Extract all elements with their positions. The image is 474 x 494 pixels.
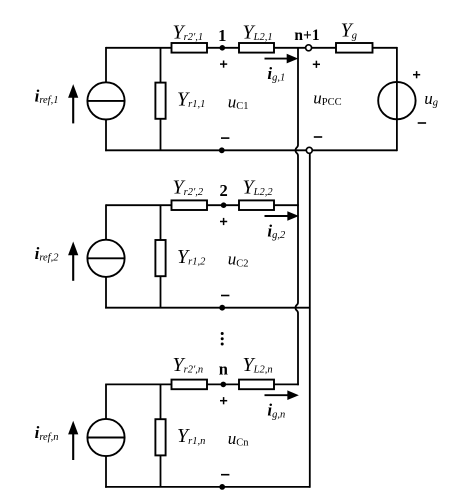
wire: from top rail down to Y_r1,2 [160, 205, 162, 240]
label: Y_r2',n [173, 354, 204, 376]
wire: from Y_r1,2 down to bottom rail [160, 276, 162, 308]
label: Y_L2,1 [243, 21, 273, 43]
resistor Y_r2',n (series admittance) [172, 380, 208, 390]
label: node number 1 [218, 26, 226, 45]
resistor Y_r1,2 (shunt admittance) [155, 240, 165, 276]
current source i_ref,n [87, 419, 124, 456]
node: PCC bottom terminal (open circle) [306, 147, 312, 153]
label: + of u_g [413, 71, 420, 78]
label: i_ref,n [35, 423, 59, 443]
label: Y_r1,n [177, 425, 205, 447]
label: i_ref,2 [35, 244, 60, 264]
resistor Y_r1,n (shunt admittance) [155, 419, 165, 455]
node 1 (junction dot) [220, 45, 226, 51]
wire: top rail from Yg resistor to grid branch corner [372, 47, 397, 49]
resistor Y_r1,1 (shunt admittance) [155, 83, 165, 119]
wire: left leg above current source 1 [105, 47, 107, 83]
label: - of u_C2 [221, 295, 229, 297]
node n (junction dot) [221, 382, 227, 388]
wire: from top rail down to Y_r1,n [160, 384, 162, 419]
label: Y_g [341, 20, 357, 42]
resistor Y_r2',2 (series admittance) [172, 200, 208, 210]
wire: ground bus (PCC bottom terminal down to converter n bottom rail) [309, 153, 311, 487]
wire: top rail between Yr2 and YL2 resistors (node 1) [207, 47, 240, 49]
label: + of u_Cn [220, 397, 227, 404]
resistor Y_L2,n (series admittance) [239, 380, 274, 390]
label: + of u_C2 [220, 218, 227, 225]
label: Y_L2,2 [243, 177, 274, 199]
wire: bottom rail of converter 2 (to ground bus) [105, 307, 310, 309]
wire: left leg above current source n [105, 384, 107, 420]
wire: top rail of converter 1 from left corner to Yr2 resistor [106, 47, 173, 49]
label: u_C1 [228, 92, 249, 112]
label: u_PCC [313, 88, 341, 108]
node: bottom junction of converter 1 [219, 147, 225, 153]
label: i_ref,1 [35, 87, 59, 107]
wire: from Y_r1,1 down to bottom rail [160, 119, 162, 151]
wire: top rail from YL2,2 to PCC bus [274, 204, 299, 206]
wire: left leg below current source n [105, 456, 107, 488]
label: - of u_C1 [221, 137, 229, 139]
label: + of u_PCC [313, 61, 320, 68]
wire: top rail between Yr2 and YL2 resistors (node 2) [207, 204, 240, 206]
wire: bottom rail of converter 1 (to grid branch) [105, 149, 397, 151]
resistor Y_L2,2 (series admittance) [239, 200, 274, 210]
label: u_g [424, 89, 438, 109]
arrow: grid current i_g,n (to the right) [265, 390, 299, 400]
arrow: reference current i_ref,n direction (up) [68, 421, 78, 460]
resistor Y_g (grid admittance) [336, 43, 373, 53]
wire: left leg below current source 2 [105, 277, 107, 309]
resistor Y_r2',1 (series admittance) [172, 43, 208, 53]
arrow: grid current i_g,1 (to the right) [265, 54, 299, 64]
arrow: reference current i_ref,2 direction (up) [68, 242, 78, 281]
label: node number n+1 [294, 27, 319, 44]
current source i_ref,2 [87, 240, 124, 277]
ellipsis: more converters indicator [221, 332, 224, 346]
label: Y_L2,n [243, 354, 273, 376]
label: - of u_g [418, 122, 426, 124]
wire: bottom rail of converter n (to ground bus) [105, 486, 310, 488]
wire: top rail between Yr2 and YL2 resistors (node n) [207, 383, 240, 385]
label: i_g,n [267, 401, 285, 421]
wire: top rail of converter 2 from left corner to Yr2 resistor [106, 204, 173, 206]
svg-text:n+1: n+1 [294, 27, 319, 44]
voltage source u_g (grid) [378, 82, 415, 119]
label: Y_r1,2 [177, 246, 206, 268]
wire: top rail of converter n from left corner to Yr2 resistor [106, 383, 173, 385]
node n+1 (PCC terminal, open circle) [306, 45, 312, 51]
svg-text:n: n [219, 359, 228, 378]
wire: from Y_r1,n down to bottom rail [160, 455, 162, 487]
label: Y_r2',1 [173, 21, 204, 43]
wire: top rail from YL2,1 to PCC node n+1 and on to Yg [274, 47, 338, 49]
wire: left leg above current source 2 [105, 204, 107, 240]
wire: PCC bus (node n+1 down to converter n top, hops over bottom rails) [296, 48, 299, 385]
wire: top rail from YL2,n to PCC bus [274, 383, 299, 385]
label: i_g,1 [267, 64, 285, 84]
wire: from top rail down to Y_r1,1 [160, 48, 162, 83]
arrow: reference current i_ref,1 direction (up) [68, 84, 78, 123]
label: u_C2 [228, 250, 249, 270]
node: bottom junction of converter n [219, 484, 225, 490]
resistor Y_L2,1 (series admittance) [239, 43, 274, 53]
svg-text:2: 2 [219, 181, 227, 200]
wire: left leg below current source 1 [105, 119, 107, 151]
current source i_ref,1 [87, 82, 124, 119]
node: bottom junction of converter 2 [219, 305, 225, 311]
label: node number 2 [219, 181, 227, 200]
label: i_g,2 [267, 222, 286, 242]
wire: grid branch vertical (right side) [396, 47, 398, 151]
node 2 (junction dot) [221, 202, 227, 208]
label: - of u_PCC [314, 136, 322, 138]
label: - of u_Cn [221, 474, 229, 476]
label: Y_r1,1 [177, 89, 205, 111]
label: + of u_C1 [220, 61, 227, 68]
svg-text:1: 1 [218, 26, 226, 45]
label: Y_r2',2 [173, 177, 204, 199]
arrow: grid current i_g,2 (to the right) [265, 211, 299, 221]
label: node number n [219, 359, 228, 378]
label: u_Cn [228, 429, 250, 449]
